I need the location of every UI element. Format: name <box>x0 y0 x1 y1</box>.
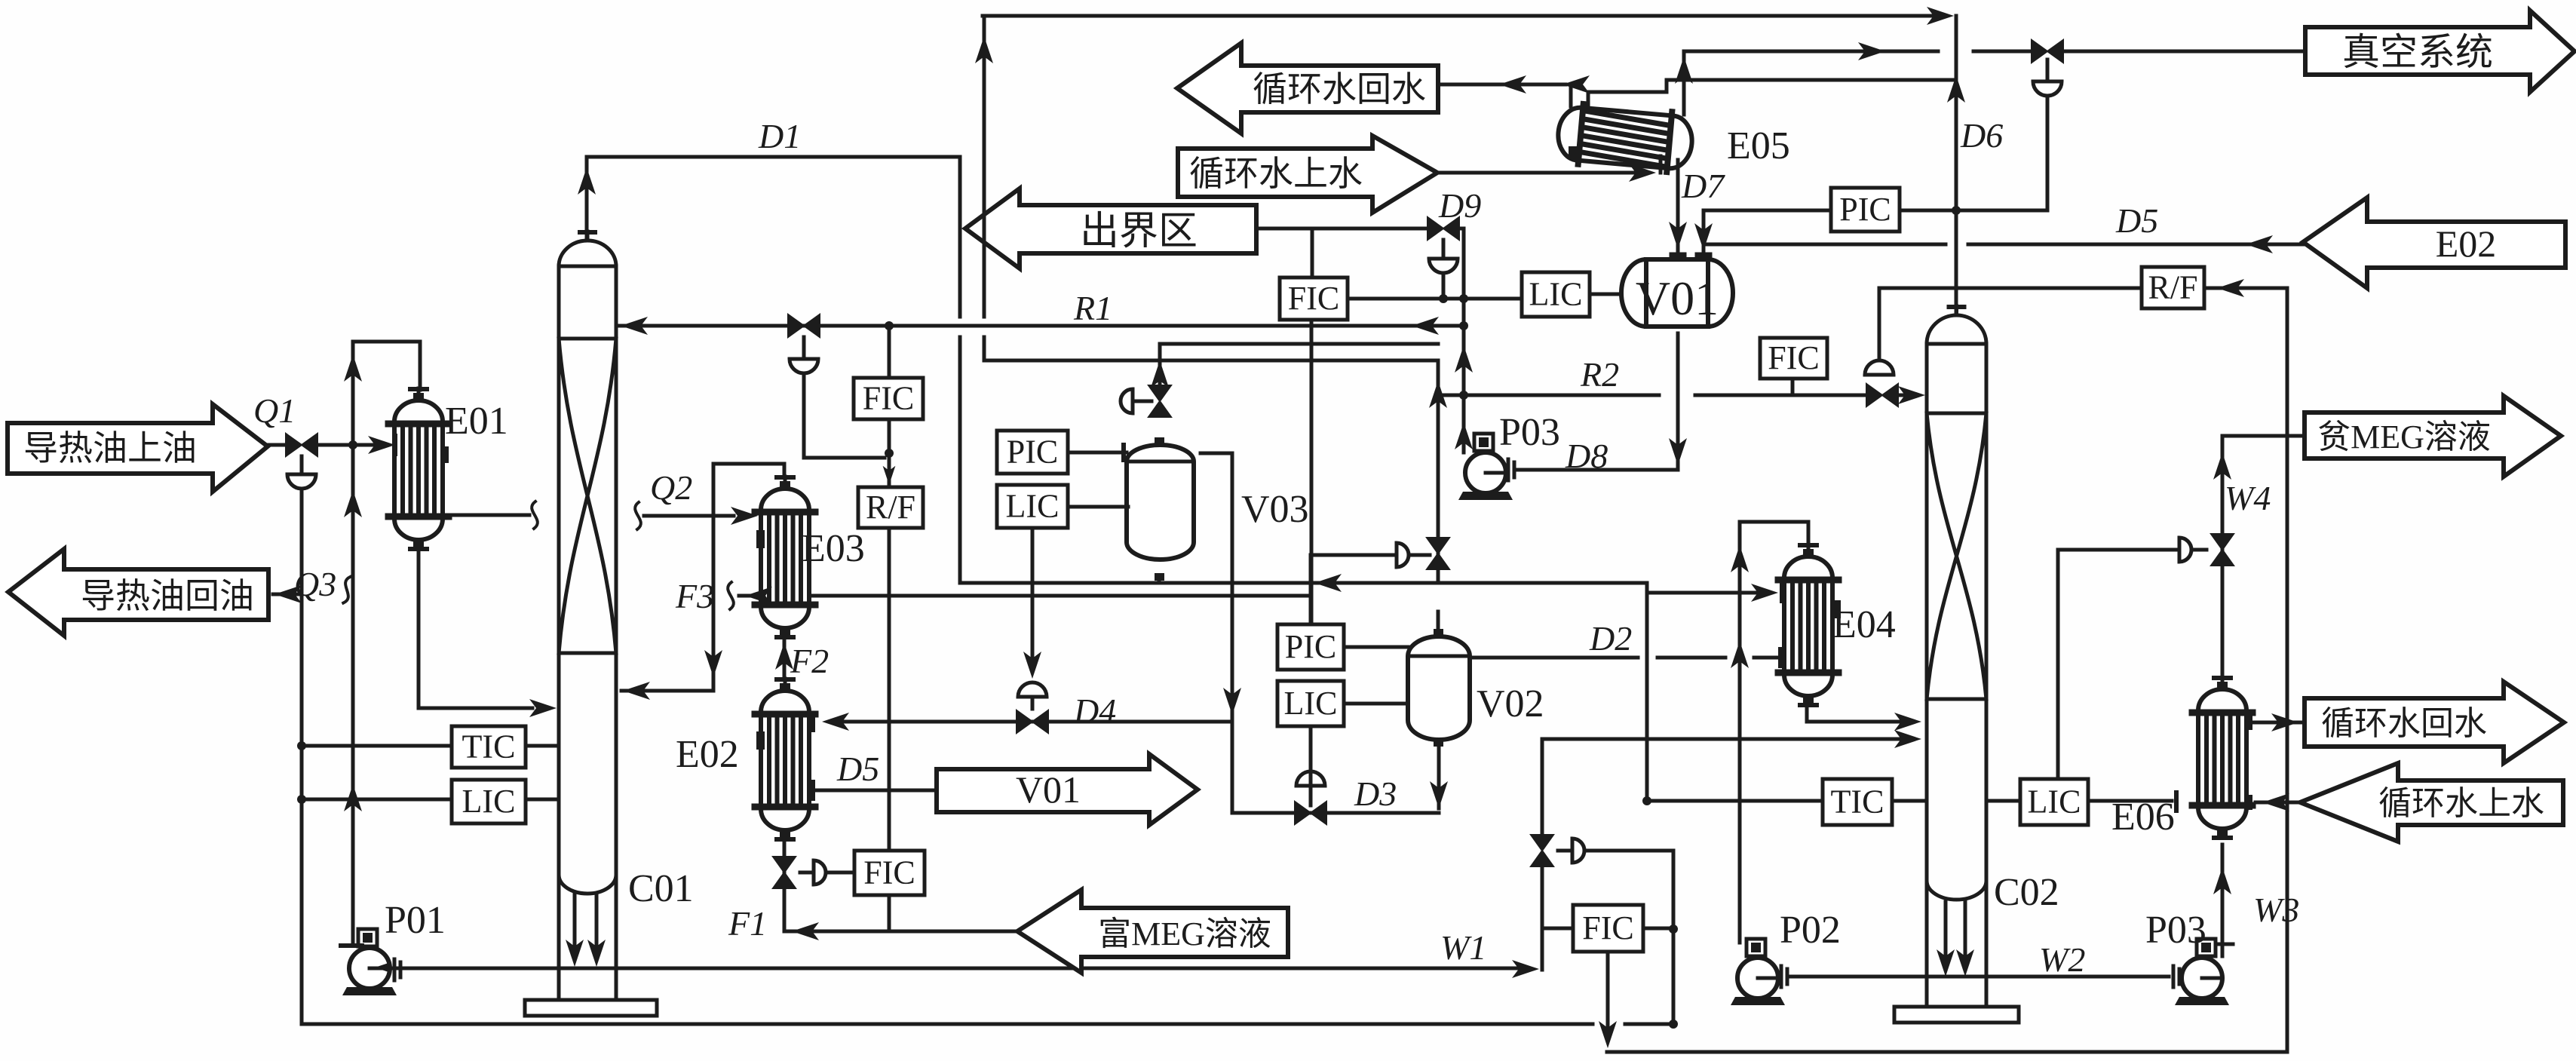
wire actuator of R1 valve to control line <box>804 373 885 458</box>
svg-text:D1: D1 <box>758 117 801 155</box>
wires C02 bottom downcomer arrows <box>1944 902 1948 956</box>
valve on V03 vent <box>1148 385 1171 417</box>
valve R1 <box>788 314 820 337</box>
wire Q2 oil line to E03 with break <box>635 502 641 529</box>
wire vacuum line to 真空系统 <box>1684 50 1938 54</box>
wire TIC to C02 <box>1892 799 1927 803</box>
instrument R/F box <box>858 487 923 528</box>
svg-text:W2: W2 <box>2039 940 2085 979</box>
valve D3 <box>1295 802 1326 824</box>
wire F3 outlet from E03 with break <box>739 594 758 598</box>
svg-text:F3: F3 <box>675 577 714 615</box>
actuator above D3 valve <box>1296 771 1325 786</box>
svg-text:贫MEG溶液: 贫MEG溶液 <box>2317 419 2491 455</box>
instrument LIC box <box>997 485 1068 528</box>
arrow on D1 corridor <box>1314 574 1342 592</box>
wire overhead header from D1 to D6 <box>983 14 1933 18</box>
svg-text:LIC: LIC <box>1284 685 1338 722</box>
wire D5 line from E02 arrow to V01 <box>1704 243 1946 247</box>
svg-text:C01: C01 <box>628 867 694 910</box>
svg-text:D7: D7 <box>1681 167 1725 205</box>
wire corridor to R2 <box>984 360 1438 579</box>
stub V03 top <box>1155 437 1164 445</box>
svg-text:C02: C02 <box>1994 871 2059 914</box>
valve F1 on riser <box>773 857 796 888</box>
wire FIC R2 tap <box>1791 379 1795 395</box>
big arrow outlet 循环水回水 top <box>1177 43 1438 133</box>
instrument PIC box <box>997 431 1068 474</box>
heat exchanger E03 shell <box>755 477 815 637</box>
wire D4 line from V03 into E02 top nozzle <box>839 720 1232 724</box>
svg-text:PIC: PIC <box>1007 434 1058 471</box>
wire R/F signal to R2 valve <box>1879 288 2142 360</box>
svg-text:P02: P02 <box>1780 909 1841 952</box>
stub V03 bottom <box>1155 573 1164 581</box>
svg-text:TIC: TIC <box>1831 783 1884 820</box>
wire D2 line V02 to E04 <box>1470 656 1638 660</box>
svg-text:D9: D9 <box>1438 186 1481 225</box>
actuator below Q1 valve <box>287 474 316 489</box>
wire LIC stub to E06 <box>2088 799 2172 803</box>
column C02 packing section <box>1927 412 1986 416</box>
nozzle stubs on V01 top <box>1672 253 1684 258</box>
wire corridor branch down to TIC C02 line <box>1645 593 1649 801</box>
svg-text:D2: D2 <box>1589 619 1632 658</box>
wire E05 vent to vacuum line <box>1682 51 1686 115</box>
wire D1 riser from C01 top <box>585 157 589 238</box>
wire V02 bottom into D3 line <box>1437 747 1441 808</box>
instrument LIC box <box>1277 681 1344 726</box>
wire F1 feed line from 富MEG arrow <box>784 930 1017 934</box>
wire F1 valve to actuator and FIC <box>800 871 814 875</box>
wire riser FIC D9 to PIC V02 <box>1310 320 1314 624</box>
instrument FIC box <box>854 378 923 419</box>
valve W4 <box>2211 534 2234 566</box>
wire bottom signal bus A from LIC riser to W1 valve riser <box>302 1023 1593 1026</box>
wire cooling water return from E05 <box>1438 83 1566 87</box>
svg-text:循环水回水: 循环水回水 <box>1253 70 1426 109</box>
valve R2 <box>1866 384 1898 406</box>
instrument PIC box <box>1831 188 1900 232</box>
stub V02 top <box>1434 629 1443 636</box>
big arrow outlet 导热油回油 <box>8 549 268 636</box>
arrow into E01 left nozzle <box>368 436 395 454</box>
wire P02 discharge riser to E04 top <box>1740 522 1808 943</box>
wire C01 bottoms / W1 line from pump P01 to W1 riser <box>390 967 1520 971</box>
actuator of V02 riser valve <box>1397 543 1409 567</box>
wire F2 link E02 top to E03 bottom <box>783 637 787 679</box>
svg-text:D5: D5 <box>836 750 879 788</box>
wire D5 line from E02 to V01 connector <box>813 789 937 793</box>
svg-text:导热油回油: 导热油回油 <box>81 577 254 615</box>
wire LIC V02 signal down to D3 valve <box>1309 726 1313 784</box>
big arrow inlet E02 connector <box>2303 198 2565 288</box>
instrument FIC box <box>1573 905 1643 952</box>
wire FIC D9 signal line <box>1347 297 1522 301</box>
valve D4 <box>1017 710 1048 733</box>
heat exchanger E06 shell <box>2192 677 2252 838</box>
svg-text:Q3: Q3 <box>294 565 336 603</box>
svg-text:E06: E06 <box>2111 796 2175 839</box>
nozzle blocks on E06 right side <box>2245 715 2252 730</box>
svg-text:P01: P01 <box>385 899 446 942</box>
valve D9 <box>1428 217 1459 240</box>
wire P03 suction from D8 <box>1516 468 1678 472</box>
instrument LIC box <box>452 780 526 823</box>
wire V01 bottom outlet down to D8 <box>1676 333 1680 468</box>
wire R1 reflux line into C01 top <box>619 324 1464 328</box>
svg-text:D3: D3 <box>1354 774 1397 813</box>
big arrow outlet 贫MEG溶液 <box>2305 396 2561 477</box>
svg-text:V03: V03 <box>1241 488 1309 531</box>
instrument FIC box <box>1760 338 1827 379</box>
wire V03 right outlet down to D4/D3 <box>1201 453 1232 813</box>
svg-text:R/F: R/F <box>866 489 915 526</box>
wire control chain R1-FIC to R/F <box>888 326 891 378</box>
svg-text:Q2: Q2 <box>650 468 692 507</box>
wire E04 bottom outlet to C02 <box>1807 703 1900 722</box>
wire E01 bottom outlet to column C01 feed <box>419 550 532 708</box>
wire R/F down to FIC F1 <box>888 528 891 851</box>
instrument LIC box <box>2020 779 2088 825</box>
svg-text:FIC: FIC <box>1288 280 1339 317</box>
wire V02 top to vapor riser valve <box>1437 612 1440 629</box>
wire E03 top outlet back to C01 <box>621 464 784 691</box>
wire R/F input from W1 FIC via bottom bus <box>2204 287 2225 290</box>
svg-text:P03: P03 <box>2145 909 2206 952</box>
svg-text:V01: V01 <box>1636 271 1719 325</box>
big arrow outlet 出界区 <box>965 189 1256 268</box>
svg-text:F1: F1 <box>728 904 767 943</box>
svg-text:P03: P03 <box>1499 411 1560 454</box>
actuator above D4 valve <box>1018 682 1047 697</box>
svg-text:PIC: PIC <box>1285 628 1336 665</box>
wire R2 into C02 top <box>1898 394 1912 397</box>
wire W1 riser below valve <box>1541 867 1544 970</box>
svg-text:F2: F2 <box>790 642 829 680</box>
wire PIC V02 signal to riser valve <box>1311 555 1397 624</box>
nozzle block on E01 right side <box>440 446 449 463</box>
column C01 base plate <box>525 1000 657 1016</box>
wire TIC measurement line C01 <box>302 744 452 748</box>
svg-text:循环水回水: 循环水回水 <box>2321 705 2487 742</box>
big arrow connector V01 <box>937 754 1198 825</box>
wire LIC measurement line C01 <box>302 798 452 802</box>
actuator below D9 valve <box>1442 240 1446 257</box>
wire Q3 return line into arrow <box>273 593 302 596</box>
wire D7 condensate from E05 into V01 <box>1676 160 1680 251</box>
svg-text:R1: R1 <box>1073 289 1112 327</box>
svg-text:富MEG溶液: 富MEG溶液 <box>1098 915 1271 952</box>
wire E05 vapor inlet line from D6 <box>1588 80 1956 105</box>
wire LIC C02 signal to W4 valve <box>2058 550 2179 779</box>
stub E05 water outlet top left <box>1569 84 1573 106</box>
wire W4 riser from E06 top to product <box>2222 436 2305 679</box>
svg-text:D6: D6 <box>1960 116 2003 155</box>
svg-text:FIC: FIC <box>1768 339 1819 376</box>
svg-text:W1: W1 <box>1440 928 1486 967</box>
actuator above R2 valve <box>1865 360 1894 375</box>
instrument FIC box <box>1280 278 1348 320</box>
svg-text:V01: V01 <box>1016 768 1081 811</box>
valve on vacuum line <box>2032 40 2063 63</box>
heat exchanger E04 shell <box>1778 544 1838 705</box>
wire TIC C02 line <box>1647 799 1823 803</box>
svg-text:真空系统: 真空系统 <box>2342 31 2493 73</box>
actuator of W1 feed valve <box>1572 839 1584 863</box>
wire FIC tap to D9 line <box>1311 228 1314 278</box>
wire V03 vent line to riser <box>1160 344 1438 385</box>
wire D3 line <box>1232 811 1439 815</box>
svg-text:E01: E01 <box>445 400 508 443</box>
svg-text:E03: E03 <box>802 527 865 570</box>
wire F1 riser from E02 bottom to feed point <box>783 837 787 931</box>
svg-text:E02: E02 <box>2436 222 2497 265</box>
wire riser from P03 pump to D9 / R1 / R2 <box>1462 228 1466 452</box>
svg-text:循环水上水: 循环水上水 <box>2378 785 2544 822</box>
wire FIC W1 tap to riser <box>1542 927 1573 931</box>
instrument FIC box <box>854 851 925 895</box>
column C02 shell <box>1955 306 1958 314</box>
wire FIC F1 to feed line <box>888 895 891 931</box>
wire Q1 valve stem down to oil-return / control riser x=400 <box>300 456 304 473</box>
heat exchanger E05 condenser <box>1556 102 1694 173</box>
wire FIC W1 output to actuator riser <box>1643 927 1673 931</box>
junction Q1 line with P01 riser <box>348 440 357 449</box>
svg-text:D4: D4 <box>1073 691 1116 730</box>
actuator of W4 valve <box>2179 538 2191 562</box>
valve Q1 inlet valve <box>286 434 317 456</box>
wire LIC to V03 <box>1068 505 1128 509</box>
nozzle flange on E06 left <box>2174 793 2179 811</box>
heat exchanger E01 shell <box>388 388 449 549</box>
wire LIC to V01 <box>1590 293 1621 296</box>
wire stem to W1 valve <box>1558 849 1572 853</box>
wire V01 right stub up / D5 in / PIC tap <box>1702 210 1706 253</box>
svg-text:E05: E05 <box>1727 124 1790 167</box>
column C02 bottom head <box>1927 881 1986 900</box>
pump P01 <box>342 929 397 995</box>
svg-text:FIC: FIC <box>1582 909 1633 946</box>
wire D1 overhead line to E04 corridor <box>587 157 960 317</box>
wires C01 bottom downcomer arrows <box>573 894 577 946</box>
wire PIC pressure line V01 to vacuum valve <box>1704 209 1831 213</box>
wire W3 from P03 to E06 <box>2221 845 2225 956</box>
wire D9 product line from riser to 出界区 <box>1256 227 1428 231</box>
svg-text:LIC: LIC <box>2028 783 2081 820</box>
svg-text:LIC: LIC <box>1529 276 1583 313</box>
svg-text:LIC: LIC <box>1006 488 1060 525</box>
svg-text:PIC: PIC <box>1839 191 1891 228</box>
actuator of V03 vent valve <box>1121 389 1133 413</box>
big arrow inlet 循环水上水 <box>1178 136 1437 213</box>
svg-text:R/F: R/F <box>2148 269 2197 306</box>
svg-text:W3: W3 <box>2253 891 2299 929</box>
flanges at P01 discharge <box>393 959 397 980</box>
svg-text:FIC: FIC <box>863 854 915 891</box>
valve on V02 vapor riser <box>1427 538 1449 569</box>
svg-text:LIC: LIC <box>462 783 516 820</box>
svg-text:V02: V02 <box>1477 682 1544 725</box>
heat exchanger E02 shell <box>755 679 815 839</box>
svg-text:R2: R2 <box>1580 355 1619 394</box>
svg-text:Q1: Q1 <box>253 391 296 430</box>
svg-text:出界区: 出界区 <box>1080 210 1198 253</box>
wire D9 actuator stem to FIC line <box>1442 273 1446 299</box>
svg-text:D8: D8 <box>1565 437 1608 475</box>
stub V02 bottom <box>1434 739 1443 747</box>
vessel V02 <box>1408 636 1470 740</box>
wire riser x=400 from actuator down to bottom signal bus <box>300 489 304 1024</box>
wire cooling water supply into E05 <box>1437 171 1648 175</box>
wire FIC W1 output down to bus B <box>1606 952 1610 1041</box>
wire riser from bus A up to W1 valve actuator <box>1672 851 1676 1024</box>
nozzle block on E03 left side <box>756 530 765 548</box>
column C01 packing section <box>559 337 616 341</box>
instrument PIC box <box>1277 624 1344 670</box>
big arrow outlet 真空系统 <box>2305 11 2574 92</box>
wire R2 reflux line to C02 <box>1438 394 1659 397</box>
vessel V03 <box>1127 445 1194 560</box>
wire E06 outlet to 循环水回水 right <box>2246 721 2305 725</box>
instrument TIC box <box>452 726 526 768</box>
wire 循环水上水 into E06 <box>2256 801 2300 805</box>
wire LIC V02 to vessel <box>1344 702 1408 706</box>
wire E03 outlet segment on corridor <box>811 594 1311 598</box>
big arrow inlet 导热油上油 <box>8 404 268 492</box>
wire C02 feed from W1 riser <box>1542 739 1900 834</box>
nozzle block on E02 left side <box>756 731 765 750</box>
big arrow outlet 循环水回水 right <box>2305 682 2564 763</box>
instrument TIC box <box>1823 779 1892 825</box>
wire D6 vapor riser from C02 top <box>1955 16 1958 313</box>
wire C02 to LIC <box>1986 799 2020 803</box>
big arrow inlet 富MEG溶液 <box>1017 890 1288 973</box>
svg-text:E04: E04 <box>1832 603 1896 646</box>
pump P03 <box>1458 434 1513 500</box>
wire E01 right lower outlet with break <box>443 514 529 517</box>
svg-text:TIC: TIC <box>462 728 516 765</box>
actuator below R1 valve <box>802 337 806 357</box>
svg-text:FIC: FIC <box>863 380 914 417</box>
pump P02 <box>1731 939 1785 1005</box>
wire Q1 feed line to valve <box>268 443 286 447</box>
svg-text:导热油上油: 导热油上油 <box>23 429 197 468</box>
wire PIC V02 to vessel <box>1344 645 1408 649</box>
vessel V01 reflux drum <box>1621 259 1733 327</box>
wire P01 discharge riser to E01 top <box>353 342 420 944</box>
wire TIC to column C01 <box>526 744 559 748</box>
actuator below vacuum valve <box>2033 81 2062 96</box>
svg-text:循环水上水: 循环水上水 <box>1189 155 1363 193</box>
nozzle flange on E04 upper left <box>1780 584 1784 601</box>
valve W1 feed valve on riser <box>1531 835 1553 866</box>
wire W2 line C02 bottoms <box>1789 975 2169 979</box>
column C01 shell <box>586 232 590 239</box>
svg-text:E02: E02 <box>676 733 739 776</box>
svg-text:W4: W4 <box>2225 479 2271 517</box>
column C02 base plate <box>1894 1007 2019 1023</box>
wire LIC V03 signal down to D4 valve <box>1031 528 1035 670</box>
stub E05 bottom left drain <box>1569 146 1579 158</box>
pump P03 <box>2175 939 2229 1005</box>
svg-text:D5: D5 <box>2115 201 2158 240</box>
wire PIC to V03 <box>1068 451 1127 455</box>
nozzle block on E04 right side <box>1832 600 1841 618</box>
big arrow inlet 循环水上水 right <box>2300 763 2563 842</box>
wire Q1 valve to E01 inlet <box>317 443 381 447</box>
wire LIC to column C01 <box>526 798 559 802</box>
column C01 bottom head <box>559 875 616 894</box>
instrument LIC box <box>1522 272 1590 317</box>
wire riser line B from R2 corridor to header <box>983 16 986 317</box>
instrument R/F box <box>2142 267 2204 308</box>
